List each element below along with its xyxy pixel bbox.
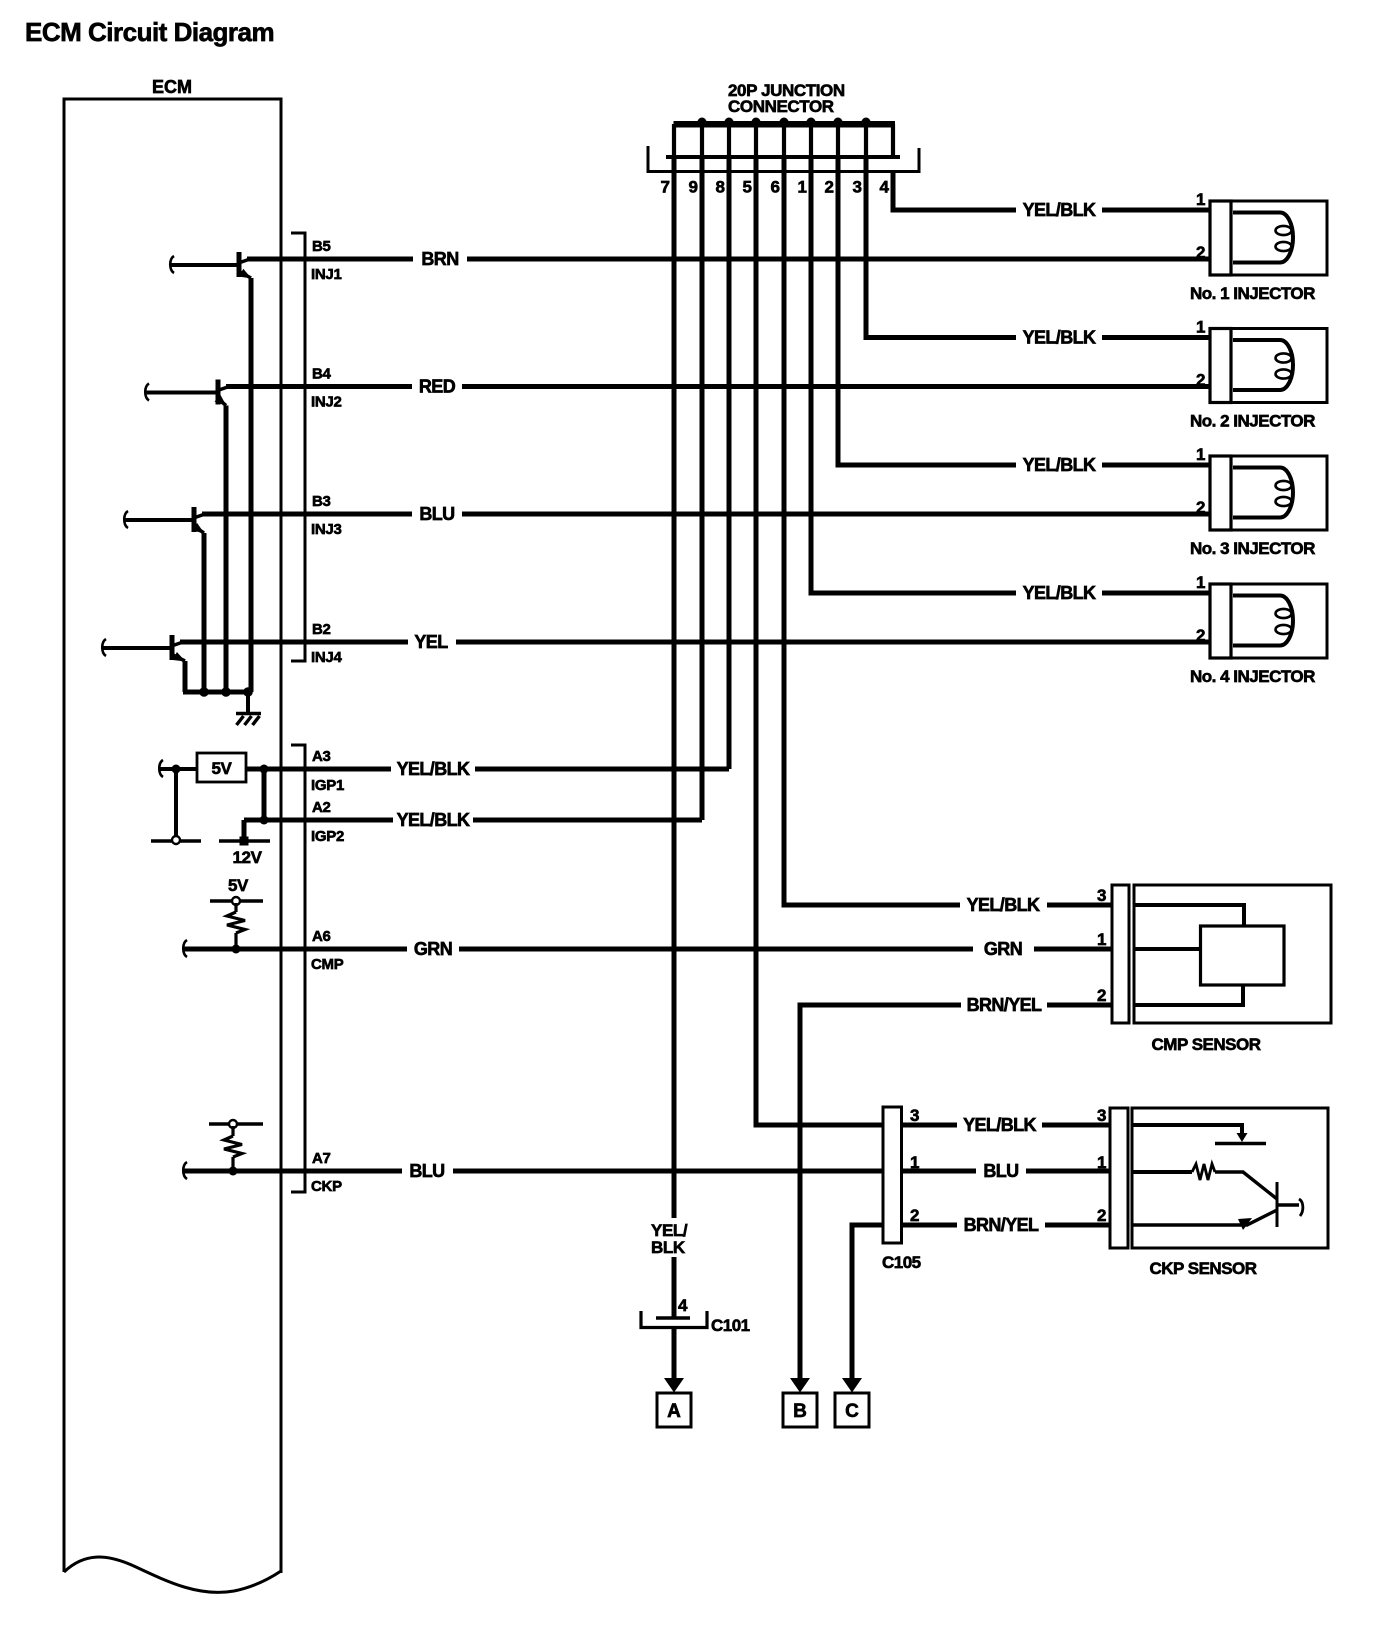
destination box A [657, 1393, 691, 1427]
ECM block outline [64, 99, 281, 1592]
svg-text:INJ3: INJ3 [311, 521, 342, 538]
svg-text:5V: 5V [212, 759, 233, 778]
svg-text:12V: 12V [232, 848, 262, 867]
node A2 junction [260, 816, 269, 825]
svg-text:B3: B3 [312, 493, 331, 510]
wire junction pin 4 (to injector 1 pin 1) [893, 172, 1016, 210]
svg-text:2: 2 [910, 1206, 919, 1225]
node A6 [232, 945, 241, 954]
injector 3 body [1231, 456, 1327, 530]
node rail-Q3 [199, 687, 209, 697]
svg-text:A6: A6 [312, 928, 331, 945]
pull-up resistor (A6) [227, 903, 245, 949]
wire junction pin 8 (to IGP1) [727, 156, 732, 769]
svg-text:3: 3 [1097, 886, 1106, 905]
wire B3 BLU (ECM to injector 3 pin 2) [202, 512, 412, 517]
connector stub hook (A7) [183, 1162, 187, 1179]
svg-text:BRN/YEL: BRN/YEL [967, 995, 1042, 1015]
svg-text:No. 3 INJECTOR: No. 3 INJECTOR [1190, 539, 1315, 558]
svg-text:2: 2 [1196, 626, 1205, 645]
wire 5V left drop [174, 769, 178, 838]
wire GRN to CMP pin 1 [1034, 947, 1112, 952]
svg-text:YEL/BLK: YEL/BLK [1023, 583, 1096, 603]
svg-text:C101: C101 [711, 1316, 750, 1335]
svg-text:2: 2 [1196, 243, 1205, 262]
svg-text:RED: RED [419, 377, 456, 397]
svg-text:B4: B4 [312, 366, 332, 383]
connector C105 [883, 1107, 902, 1243]
svg-text:2: 2 [1097, 1206, 1106, 1225]
injector 2 coil [1233, 340, 1293, 390]
CKP connector [1110, 1108, 1128, 1248]
svg-text:1: 1 [1097, 1153, 1106, 1172]
wire injector 2 pin 1 right segment [1102, 335, 1210, 340]
svg-text:BLK: BLK [651, 1238, 686, 1257]
svg-text:BLU: BLU [409, 1161, 444, 1181]
svg-text:No. 1 INJECTOR: No. 1 INJECTOR [1190, 284, 1315, 303]
svg-text:2: 2 [1196, 371, 1205, 390]
wire A3 right segment [475, 767, 729, 772]
svg-text:CMP SENSOR: CMP SENSOR [1152, 1035, 1261, 1054]
CMP sensor body [1134, 885, 1331, 1023]
svg-text:A3: A3 [312, 748, 331, 765]
wire junction pin 1 (to injector 4 pin 1) [811, 156, 1016, 593]
wire BRN/YEL (C105 pin 2 to C) [852, 1225, 883, 1380]
svg-text:C: C [845, 1401, 859, 1422]
svg-text:4: 4 [678, 1296, 688, 1315]
CKP pin 2 arrowhead [1238, 1218, 1252, 1230]
arrowhead B [790, 1378, 810, 1393]
transistor Q2 (INJ2 driver) [145, 380, 229, 693]
ground stem [246, 692, 250, 713]
svg-text:CONNECTOR: CONNECTOR [728, 97, 834, 116]
svg-text:1: 1 [1196, 318, 1205, 337]
CKP sensor body [1132, 1108, 1328, 1248]
svg-text:YEL/BLK: YEL/BLK [963, 1115, 1036, 1135]
wire junction pin 3 (to injector 2 pin 1) [866, 156, 1016, 338]
svg-text:CKP SENSOR: CKP SENSOR [1149, 1259, 1256, 1278]
junction bus terminal dots [698, 118, 871, 127]
CKP pin 1 lead to core [1215, 1172, 1277, 1199]
connector stub hook (5V lead) [159, 760, 163, 777]
svg-text:B5: B5 [312, 238, 331, 255]
transistor Q1 (INJ1 driver) [170, 252, 251, 692]
wire junction pin 5 (to C105 pin 3) [756, 156, 883, 1125]
injector 2 body [1231, 329, 1327, 403]
CMP sensor internal pin 3 lead [1134, 905, 1244, 926]
CKP shield arrowhead [1237, 1133, 1248, 1142]
node A7 [229, 1167, 238, 1176]
CKP internal pin 1 lead [1132, 1170, 1192, 1174]
C101 pin tick [656, 1316, 690, 1319]
svg-text:7: 7 [660, 178, 669, 197]
wire 5V-A2 drop [262, 769, 267, 820]
node 5V right [260, 765, 269, 774]
wire B5 BRN (ECM to injector 1 pin 2) [247, 257, 413, 262]
CMP sensor element [1201, 926, 1285, 985]
ECM connector B bracket [291, 233, 305, 661]
svg-text:4: 4 [879, 178, 889, 197]
wire B4 RED (ECM to injector 2 pin 2) [226, 384, 412, 389]
svg-text:YEL/BLK: YEL/BLK [1023, 200, 1096, 220]
svg-text:C105: C105 [882, 1253, 921, 1272]
svg-text:IGP1: IGP1 [311, 777, 344, 794]
destination box C [835, 1393, 869, 1427]
5V regulator box [197, 753, 246, 782]
svg-text:YEL/BLK: YEL/BLK [397, 810, 470, 830]
svg-text:BLU: BLU [983, 1161, 1018, 1181]
CMP sensor internal pin 1 lead [1134, 947, 1200, 951]
wire junction pin 9 (to IGP2) [700, 156, 705, 820]
connector C101 cup [641, 1311, 707, 1328]
CMP sensor internal pin 2 lead [1134, 985, 1243, 1005]
wire BLU C105 to CKP pin 1 [902, 1169, 977, 1174]
svg-text:No. 4 INJECTOR: No. 4 INJECTOR [1190, 667, 1315, 686]
CKP core pole hook [1299, 1199, 1303, 1216]
injector 1 coil [1233, 213, 1293, 263]
svg-text:2: 2 [824, 178, 833, 197]
svg-text:1: 1 [797, 178, 806, 197]
5V reference bar (A7) [209, 1122, 263, 1126]
svg-text:YEL/BLK: YEL/BLK [967, 895, 1040, 915]
svg-text:2: 2 [1196, 498, 1205, 517]
CKP internal pin 3 lead (shield) [1132, 1125, 1242, 1133]
wire injector 3 pin 1 right segment [1102, 463, 1210, 468]
CKP shield bar [1215, 1142, 1266, 1145]
CKP coil resistance [1192, 1164, 1215, 1180]
svg-text:BLU: BLU [419, 504, 454, 524]
junction connector housing bracket [648, 146, 919, 172]
svg-text:GRN: GRN [414, 939, 452, 959]
ECM torn bottom edge [64, 1557, 281, 1592]
svg-text:2: 2 [1097, 986, 1106, 1005]
wire 5V box left lead [160, 767, 197, 771]
wire YEL/BLK C105 to CKP pin 3 [902, 1123, 958, 1128]
svg-text:3: 3 [910, 1106, 919, 1125]
injector 1 body [1231, 201, 1327, 275]
wire B2 YEL (ECM to injector 4 pin 2) [180, 640, 408, 645]
reference bar left [151, 839, 201, 843]
wire junction pin 2 (to injector 3 pin 1) [838, 156, 1016, 465]
svg-text:INJ1: INJ1 [311, 266, 342, 283]
wire A6 CMP (GRN) [184, 947, 407, 952]
node rail-Q2 [221, 687, 231, 697]
svg-text:ECM: ECM [152, 77, 192, 97]
svg-text:YEL/BLK: YEL/BLK [397, 759, 470, 779]
open terminal circle [172, 836, 180, 844]
wire injector 1 pin 1 right segment [1102, 208, 1210, 213]
wire C101 to A [672, 1329, 677, 1380]
svg-text:No. 2 INJECTOR: No. 2 INJECTOR [1190, 412, 1315, 431]
injector 2 connector [1210, 329, 1231, 403]
svg-text:6: 6 [770, 178, 779, 197]
svg-text:5V: 5V [228, 876, 249, 895]
svg-text:8: 8 [715, 178, 724, 197]
svg-text:A2: A2 [312, 799, 331, 816]
wire A7 CKP (BLU) [184, 1169, 402, 1174]
svg-text:B2: B2 [312, 621, 331, 638]
transistor Q3 (INJ3 driver) [124, 507, 205, 692]
pull-up resistor (A7) [224, 1126, 242, 1171]
svg-text:B: B [793, 1401, 807, 1422]
wire injector 4 pin 1 right segment [1102, 591, 1210, 596]
CKP internal pin 2 lead [1132, 1210, 1277, 1225]
svg-text:1: 1 [1196, 573, 1205, 592]
transistor Q4 (INJ4 driver) [102, 635, 185, 692]
CMP connector [1112, 885, 1129, 1023]
svg-text:1: 1 [1097, 930, 1106, 949]
connector stub hook (A6) [183, 940, 187, 957]
wire 5V box right lead (A3 IGP1) [246, 767, 391, 772]
12V terminal square [240, 837, 249, 846]
svg-text:CKP: CKP [311, 1178, 342, 1195]
injector 4 coil [1233, 596, 1293, 646]
svg-text:GRN: GRN [984, 939, 1022, 959]
injector 1 connector [1210, 201, 1231, 275]
CKP pickup core [1276, 1182, 1279, 1227]
junction connector lower bar [666, 155, 900, 159]
svg-text:INJ4: INJ4 [311, 649, 342, 666]
wire junction pin 6 (to CMP pin 3) [784, 156, 960, 905]
CKP core pole tick [1277, 1203, 1299, 1206]
wire A2 IGP2 [244, 818, 393, 823]
svg-text:1: 1 [1196, 445, 1205, 464]
12V terminal bar [219, 839, 270, 843]
arrowhead A [664, 1378, 684, 1393]
node rail-ground [243, 687, 253, 697]
5V reference bar (A6) [210, 899, 263, 903]
junction connector cell dividers [674, 124, 893, 156]
emitter common rail [183, 690, 251, 695]
svg-text:3: 3 [852, 178, 861, 197]
svg-text:YEL: YEL [414, 632, 448, 652]
svg-text:1: 1 [1196, 190, 1205, 209]
svg-text:YEL/BLK: YEL/BLK [1023, 455, 1096, 475]
destination box B [783, 1393, 817, 1427]
svg-text:A7: A7 [312, 1150, 331, 1167]
ECM connector A bracket [291, 745, 305, 1192]
arrowhead C [842, 1378, 862, 1393]
injector 4 connector [1210, 584, 1231, 658]
injector 4 body [1231, 584, 1327, 658]
svg-text:A: A [667, 1401, 681, 1422]
ground symbol [236, 714, 261, 726]
20P junction connector bus bar [674, 121, 896, 128]
wire junction pin 7 (to C101) [672, 156, 677, 1218]
injector 3 coil [1233, 467, 1293, 517]
wire GRN mid segment [459, 947, 973, 952]
svg-text:IGP2: IGP2 [311, 828, 344, 845]
svg-text:INJ2: INJ2 [311, 394, 342, 411]
wire BRN/YEL (CMP pin 2 to B) [800, 1005, 961, 1380]
wire A2 right segment [473, 818, 702, 823]
svg-text:BRN: BRN [421, 249, 458, 269]
junction pin numbers 7 9 8 5 6 1 2 3 4 [660, 178, 889, 197]
svg-text:ECM Circuit Diagram: ECM Circuit Diagram [25, 17, 274, 47]
node 5V left [172, 765, 181, 774]
open terminal circle (A6) [232, 897, 240, 905]
svg-text:5: 5 [742, 178, 751, 197]
svg-text:3: 3 [1097, 1106, 1106, 1125]
svg-text:9: 9 [688, 178, 697, 197]
wire BLU mid segment to C105 [453, 1169, 883, 1174]
svg-text:BRN/YEL: BRN/YEL [964, 1215, 1039, 1235]
wire 12V stub [242, 820, 247, 838]
open terminal circle (A7) [229, 1120, 237, 1128]
svg-text:CMP: CMP [311, 956, 344, 973]
svg-text:YEL/BLK: YEL/BLK [1023, 328, 1096, 348]
injector 3 connector [1210, 456, 1231, 530]
